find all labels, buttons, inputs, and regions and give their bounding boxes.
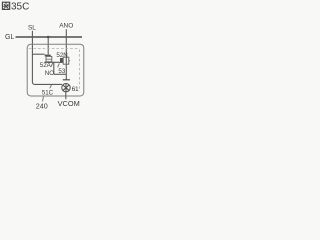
svg-text:61: 61 xyxy=(72,86,79,93)
wire node vertical from T1 drain down xyxy=(53,62,55,74)
dashed inner vertical line xyxy=(79,49,81,90)
capacitor plate short xyxy=(63,79,70,81)
background xyxy=(0,0,93,120)
wire plate horizontal joining ANO column xyxy=(54,73,67,75)
title glyph 図 (drawn box with X) xyxy=(2,2,9,9)
svg-text:NO: NO xyxy=(45,70,54,77)
svg-text:52A: 52A xyxy=(40,62,52,69)
callout 52A xyxy=(51,63,53,67)
svg-text:ANO: ANO xyxy=(59,22,73,29)
svg-text:GL: GL xyxy=(5,34,14,41)
transistor 52A channel box xyxy=(46,56,52,61)
transistor 52N gate bar xyxy=(60,58,63,63)
callout 53 xyxy=(58,63,60,67)
svg-text:VCOM: VCOM xyxy=(58,99,80,108)
wire GL horizontal xyxy=(16,36,83,38)
dashed inner horizontal line xyxy=(29,48,80,50)
svg-text:35C: 35C xyxy=(11,2,29,13)
svg-text:240: 240 xyxy=(36,101,48,110)
wire SL vertical with corner into plate xyxy=(32,31,62,85)
svg-text:SL: SL xyxy=(28,25,36,32)
wire T1 drain to T2 gate xyxy=(44,61,60,63)
wire ANO vertical xyxy=(65,29,67,79)
transistor 52N right stub xyxy=(69,60,70,62)
transistor 52A gate bar xyxy=(45,55,51,57)
callout 240 xyxy=(42,97,45,102)
transistor 52N channel box xyxy=(63,57,69,64)
wire SL branch to T1 xyxy=(32,53,44,55)
wire from circle down through box edge xyxy=(65,92,67,99)
node junction dot on GL xyxy=(47,36,50,39)
svg-text:51C: 51C xyxy=(42,90,54,97)
svg-text:52N: 52N xyxy=(56,52,67,59)
wire gate branch from GL down to T1 xyxy=(47,37,49,54)
transistor 52A middle bar xyxy=(46,58,51,60)
terminal circle with X (VCOM pad) xyxy=(62,84,70,92)
pixel region box 240 (rounded) xyxy=(27,44,84,96)
callout 51C xyxy=(50,85,52,88)
